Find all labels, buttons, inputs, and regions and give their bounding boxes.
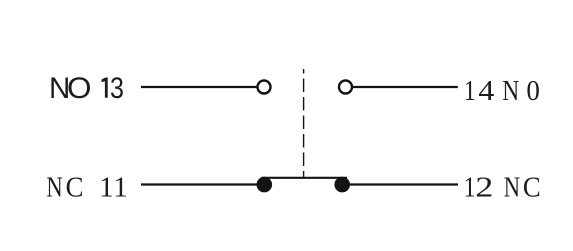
label 12 NC (bottom-right terminal name, serif) [464,170,541,203]
svg-text:4: 4 [478,74,494,106]
svg-text:N: N [46,171,63,203]
label 14 NO (top-right terminal name, serif) [464,73,540,107]
wire: NC left lead [141,183,259,185]
svg-text:N: N [504,171,521,203]
contact terminal 12 (filled dot) [334,177,350,193]
svg-text:1: 1 [99,171,114,203]
movable contact bridge [262,177,348,179]
wire: NO right lead [352,86,458,88]
svg-text:C: C [523,171,541,203]
actuator dashed line [303,69,305,178]
label NC 11 (bottom-left terminal name, serif) [46,171,127,204]
svg-text:0: 0 [526,75,539,107]
contact terminal 14 (open circle) [339,81,352,94]
label NO 13 (top-left terminal name, sans) [49,71,124,105]
svg-text:1: 1 [464,170,476,203]
wire: NO left lead [141,86,258,88]
contact terminal 11 (filled dot) [257,177,273,193]
svg-text:O: O [67,72,92,105]
svg-text:3: 3 [110,71,124,104]
svg-text:C: C [66,171,84,203]
contact terminal 13 (open circle) [258,81,271,94]
svg-text:2: 2 [475,172,493,204]
svg-text:1: 1 [113,171,128,203]
wire: NC right lead [348,183,458,185]
svg-text:N: N [502,73,519,106]
svg-text:1: 1 [464,74,476,107]
